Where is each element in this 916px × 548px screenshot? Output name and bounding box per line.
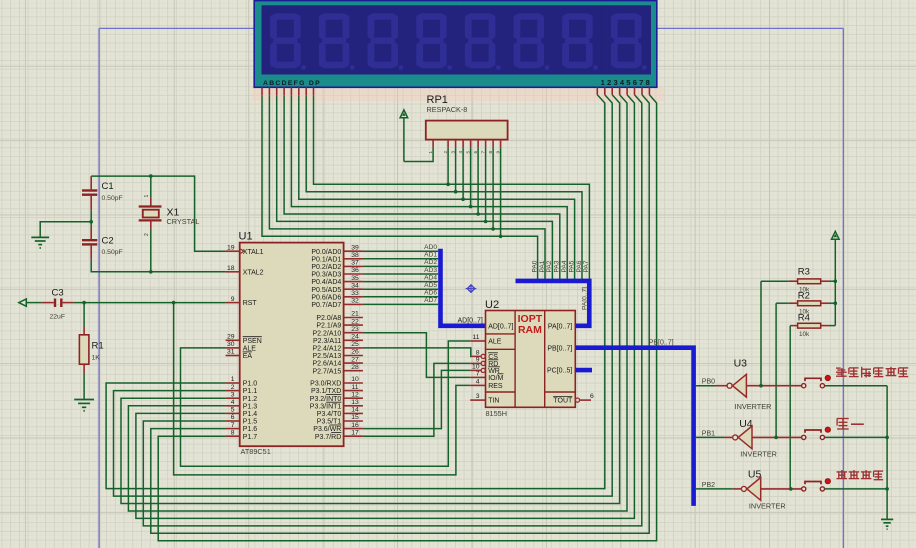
wire R2 to U4 node: [775, 303, 777, 437]
svg-text:CRYSTAL: CRYSTAL: [167, 217, 200, 226]
U5 input stub: [733, 488, 742, 490]
svg-text:INVERTER: INVERTER: [749, 502, 786, 511]
svg-text:1K: 1K: [92, 355, 101, 362]
svg-text:P3.5/T1: P3.5/T1: [317, 419, 342, 426]
wire RP1 pin 3 pull-up: [455, 148, 457, 192]
svg-text:PB[0..7]: PB[0..7]: [649, 340, 674, 347]
wire button1 to right rail: [825, 385, 888, 387]
U4 input stub: [724, 436, 733, 438]
wire P0.3 to AD bus: [363, 273, 438, 275]
inverter U4: [733, 418, 777, 459]
svg-text:C3: C3: [52, 288, 64, 299]
push button jiayi: [802, 427, 831, 440]
svg-text:ALE: ALE: [243, 346, 257, 353]
svg-text:25: 25: [351, 341, 359, 348]
junction RES spur: [172, 301, 176, 305]
wire C2 bottom to XTAL2 rail: [91, 260, 225, 272]
svg-text:1: 1: [144, 195, 150, 198]
label: adjust state switch (chinese): [836, 367, 908, 378]
svg-text:U2: U2: [485, 299, 499, 311]
svg-text:U1: U1: [239, 231, 253, 243]
svg-text:PA1: PA1: [539, 260, 546, 272]
svg-text:10: 10: [472, 363, 480, 370]
svg-text:12345678: 12345678: [601, 78, 652, 87]
wire P2.2 to IO/M: [363, 333, 470, 378]
wire segment E to PA4: [291, 95, 567, 279]
svg-text:P2.5/A13: P2.5/A13: [312, 353, 341, 360]
svg-text:PB[0..7]: PB[0..7]: [547, 345, 572, 352]
junction R4 pull-up: [789, 487, 793, 491]
svg-text:IO/M: IO/M: [488, 375, 503, 382]
ground symbol R1: [74, 400, 94, 411]
resistor R4: [790, 313, 835, 339]
peripheral U2 8155H: [485, 299, 575, 418]
ground symbol left: [31, 237, 49, 248]
wire button3 to right rail: [825, 488, 888, 490]
label: add one (chinese): [837, 419, 864, 430]
svg-text:22: 22: [351, 318, 359, 325]
svg-text:P0.6/AD6: P0.6/AD6: [311, 294, 341, 301]
svg-text:39: 39: [351, 244, 359, 251]
svg-text:P1.2: P1.2: [243, 396, 258, 403]
svg-text:22uF: 22uF: [50, 314, 66, 321]
display segment pins A-G,DP: [262, 87, 314, 95]
capacitor C1: [82, 176, 123, 210]
junction R1: [82, 301, 86, 305]
svg-text:PA[0..7]: PA[0..7]: [548, 323, 572, 330]
svg-text:P2.7/A15: P2.7/A15: [312, 368, 341, 375]
svg-text:14: 14: [351, 407, 359, 414]
pink highlight band under display: [252, 87, 664, 101]
svg-text:2: 2: [144, 233, 150, 236]
svg-text:32: 32: [351, 298, 359, 305]
svg-text:P3.1/TXD: P3.1/TXD: [311, 388, 341, 395]
svg-text:7: 7: [476, 370, 480, 377]
svg-text:RST: RST: [243, 300, 258, 307]
svg-text:24: 24: [351, 334, 359, 341]
wire RST net: [73, 302, 225, 304]
wire RP1 pin 5 pull-up: [470, 148, 472, 207]
wire P1.1 to digit 2: [114, 95, 613, 496]
svg-text:P1.7: P1.7: [243, 434, 258, 441]
svg-text:13: 13: [351, 399, 359, 406]
wire P3.6 to WR: [363, 370, 470, 428]
U1 XTAL1 clock arrow: [241, 249, 244, 253]
wire P1.0 to digit 1: [106, 95, 605, 489]
svg-text:2: 2: [231, 384, 235, 391]
svg-text:PA2: PA2: [546, 260, 553, 272]
svg-text:P0.2/AD2: P0.2/AD2: [311, 264, 341, 271]
svg-text:P2.3/A11: P2.3/A11: [313, 338, 341, 345]
svg-text:19: 19: [227, 244, 235, 251]
svg-text:AD2: AD2: [424, 259, 437, 266]
power symbol right: [832, 231, 840, 325]
wire R3 to U3 node: [760, 281, 762, 386]
resistor R3: [761, 267, 835, 294]
wire segment C to PA2: [277, 95, 553, 279]
wire P1.5 to digit 6: [143, 95, 642, 526]
junction R3 power: [834, 279, 838, 283]
svg-text:AD0: AD0: [424, 244, 437, 251]
svg-text:RAM: RAM: [518, 324, 542, 336]
svg-text:3: 3: [476, 393, 480, 400]
svg-text:ALE: ALE: [488, 339, 502, 346]
svg-text:3: 3: [231, 391, 235, 398]
wire PB2 from bus: [696, 488, 733, 490]
svg-text:R4: R4: [798, 313, 810, 324]
svg-text:EA: EA: [243, 353, 253, 360]
wire segment F to PA5: [299, 95, 575, 279]
bus PB[0..7]: [575, 348, 693, 506]
svg-text:23: 23: [351, 326, 359, 333]
svg-text:C2: C2: [102, 236, 114, 247]
junction right rail U4: [885, 436, 889, 440]
svg-text:11: 11: [351, 384, 358, 391]
svg-text:0.50pF: 0.50pF: [102, 195, 123, 202]
svg-text:XTAL2: XTAL2: [243, 269, 264, 276]
wire right rail to ground: [886, 386, 888, 519]
svg-text:PSEN: PSEN: [243, 338, 262, 345]
svg-text:R3: R3: [798, 267, 810, 278]
bus AD[0..7]: [441, 249, 486, 326]
svg-text:16: 16: [351, 422, 359, 429]
junction X1 bottom: [149, 270, 153, 274]
wire P0.4 to AD bus: [363, 281, 438, 283]
svg-text:R1: R1: [92, 341, 104, 352]
svg-text:AD5: AD5: [424, 282, 437, 289]
U2 left pins: [470, 323, 513, 404]
svg-text:P1.1: P1.1: [243, 388, 258, 395]
svg-text:15: 15: [351, 414, 359, 421]
resistor R2: [776, 291, 835, 316]
svg-text:P2.0/A8: P2.0/A8: [316, 315, 341, 322]
svg-text:18: 18: [227, 265, 235, 272]
origin marker: [466, 285, 477, 292]
svg-text:29: 29: [227, 334, 235, 341]
svg-text:U3: U3: [734, 358, 748, 370]
resistor R1: [79, 303, 103, 399]
svg-text:P0.7/AD7: P0.7/AD7: [311, 302, 341, 309]
svg-text:INVERTER: INVERTER: [735, 402, 772, 411]
wire RP1 pin 6 pull-up: [477, 148, 479, 214]
svg-text:9: 9: [476, 356, 480, 363]
wire RP1 pin 4 pull-up: [462, 148, 464, 200]
net labels AD0-AD7: [424, 244, 437, 304]
junction R2 pull-up: [774, 436, 778, 440]
svg-text:P1.3: P1.3: [243, 403, 258, 410]
wire segment DP to PA7: [314, 95, 590, 279]
svg-text:PA7: PA7: [583, 260, 590, 272]
svg-text:P1.5: P1.5: [243, 419, 258, 426]
svg-text:4: 4: [476, 378, 480, 385]
svg-text:P2.6/A14: P2.6/A14: [312, 361, 341, 368]
svg-text:RP1: RP1: [427, 94, 448, 106]
svg-text:37: 37: [351, 260, 359, 267]
svg-text:P0.0/AD0: P0.0/AD0: [311, 249, 341, 256]
svg-text:P1.4: P1.4: [243, 411, 258, 418]
wire P1.6 to digit 7: [151, 95, 649, 534]
wire RP1 pin 8 pull-up: [492, 148, 494, 229]
svg-text:8155H: 8155H: [486, 409, 508, 418]
svg-text:11: 11: [472, 334, 479, 341]
wire RP1 pin 2 pull-up: [447, 148, 449, 185]
svg-text:28: 28: [351, 364, 359, 371]
wire P0.5 to AD bus: [363, 288, 438, 290]
wire RP1 pin1 to power: [404, 148, 433, 162]
svg-text:P3.3/INT1: P3.3/INT1: [310, 403, 342, 410]
svg-text:ABCDEFG DP: ABCDEFG DP: [263, 80, 321, 87]
wire segment A to PA0: [262, 95, 538, 279]
U1 right pin names: [310, 249, 342, 441]
wire segment D to PA3: [284, 95, 560, 279]
wire P0.7 to AD bus: [363, 303, 438, 305]
svg-text:P2.1/A9: P2.1/A9: [316, 323, 341, 330]
wire RP1 pin 9 pull-up: [500, 148, 502, 237]
svg-text:TOUT: TOUT: [553, 398, 573, 405]
wire P1.7 to digit 8: [158, 95, 656, 541]
U1 left pin stubs and numbers: [226, 244, 240, 436]
svg-text:PA4: PA4: [561, 260, 568, 272]
wire C1 to C2: [90, 210, 92, 228]
U3 output wire to button: [746, 385, 801, 387]
label: display switch (chinese): [837, 470, 884, 480]
svg-text:XTAL1: XTAL1: [243, 249, 264, 256]
wire button2 to right rail: [825, 436, 888, 438]
svg-text:P1.6: P1.6: [243, 426, 258, 433]
svg-text:P1.0: P1.0: [243, 381, 258, 388]
svg-text:9: 9: [231, 296, 235, 303]
wire P2.4 to CS: [363, 348, 471, 357]
svg-text:AD[0..7]: AD[0..7]: [488, 323, 513, 330]
svg-text:P3.0/RXD: P3.0/RXD: [310, 381, 341, 388]
svg-text:P3.4/T0: P3.4/T0: [317, 411, 342, 418]
svg-text:6: 6: [231, 414, 235, 421]
svg-text:8: 8: [476, 349, 480, 356]
junction ground tap: [89, 220, 93, 224]
sheet border: [99, 28, 843, 548]
ground symbol right: [881, 519, 893, 529]
svg-text:4: 4: [231, 399, 235, 406]
crystal X1: [139, 176, 200, 272]
inverter U3: [727, 358, 771, 412]
wire segment B to PA1: [269, 95, 545, 279]
svg-text:RESPACK-8: RESPACK-8: [427, 105, 468, 114]
U2 right pins: [547, 323, 594, 404]
wire top rail XTAL1 net: [91, 176, 225, 251]
svg-text:AD4: AD4: [424, 274, 437, 281]
svg-text:AD[0..7]: AD[0..7]: [458, 318, 483, 325]
svg-text:PA6: PA6: [576, 260, 583, 272]
wire RST to 8155 RES: [174, 303, 471, 475]
svg-text:12: 12: [351, 391, 359, 398]
svg-text:INVERTER: INVERTER: [740, 450, 777, 459]
svg-text:5: 5: [231, 407, 235, 414]
wire PB0 from bus: [696, 385, 716, 387]
svg-text:38: 38: [351, 252, 359, 259]
svg-text:P3.6/WR: P3.6/WR: [313, 426, 341, 433]
capacitor C2: [82, 228, 123, 260]
wire P1.2 to digit 3: [121, 95, 620, 504]
svg-text:10k: 10k: [799, 331, 810, 338]
svg-text:10: 10: [351, 376, 359, 383]
wire P1.4 to digit 5: [136, 95, 635, 519]
svg-text:P0.3/AD3: P0.3/AD3: [311, 272, 341, 279]
U4 output wire to button: [752, 436, 802, 438]
U1 left pin names: [243, 249, 264, 441]
U1 right pin stubs and numbers: [344, 244, 363, 436]
push button xianshi: [802, 479, 831, 492]
svg-text:33: 33: [351, 290, 359, 297]
svg-text:AD3: AD3: [424, 267, 437, 274]
svg-text:31: 31: [227, 349, 235, 356]
push button tiaozheng: [802, 375, 831, 388]
capacitor C3: [26, 288, 73, 321]
wire P0.6 to AD bus: [363, 296, 438, 298]
7-segment display module LED1: [254, 1, 657, 88]
junction X1 top: [149, 174, 153, 178]
svg-text:PB1: PB1: [702, 430, 715, 437]
wire PB1 from bus: [696, 436, 724, 438]
svg-text:PA0: PA0: [531, 260, 538, 272]
wire ALE U1 to U2: [181, 341, 471, 466]
svg-text:P2.4/A12: P2.4/A12: [312, 346, 341, 353]
bus PC[0..5]: [575, 368, 592, 373]
svg-text:0.50pF: 0.50pF: [102, 249, 123, 256]
junction R3 pull-up: [759, 384, 763, 388]
svg-text:8: 8: [231, 429, 235, 436]
microcontroller U1 AT89C51: [239, 231, 344, 456]
svg-text:21: 21: [351, 311, 359, 318]
power symbol at RP1 pin 1: [400, 110, 408, 162]
svg-text:30: 30: [227, 341, 235, 348]
net labels PA0-PA7: [531, 260, 590, 272]
junction right rail U5: [885, 487, 889, 491]
svg-text:36: 36: [351, 267, 359, 274]
svg-text:PC[0..5]: PC[0..5]: [547, 368, 572, 375]
wire RP1 pin 7 pull-up: [485, 148, 487, 222]
svg-text:R2: R2: [798, 291, 810, 302]
power arrow left: [19, 299, 27, 306]
svg-text:PA3: PA3: [554, 260, 561, 272]
svg-text:26: 26: [351, 349, 359, 356]
svg-text:P3.7/RD: P3.7/RD: [315, 434, 341, 441]
svg-text:PA5: PA5: [568, 260, 575, 272]
svg-text:P0.4/AD4: P0.4/AD4: [311, 279, 341, 286]
svg-text:35: 35: [351, 275, 359, 282]
svg-text:7: 7: [231, 422, 235, 429]
svg-text:17: 17: [351, 429, 359, 436]
svg-text:AD1: AD1: [424, 252, 437, 259]
junction R2 power: [834, 301, 838, 305]
svg-text:AT89C51: AT89C51: [241, 447, 271, 456]
U5 output wire to button: [761, 488, 802, 490]
wire P1.3 to digit 4: [128, 95, 627, 511]
svg-text:1: 1: [231, 376, 235, 383]
wire P3.7 to RD: [363, 363, 470, 436]
svg-text:PA[0..7]: PA[0..7]: [582, 287, 589, 310]
svg-text:P3.2/INT0: P3.2/INT0: [310, 396, 342, 403]
svg-text:PB2: PB2: [702, 482, 715, 489]
bus PA[0..7]: [516, 281, 590, 326]
svg-text:AD6: AD6: [424, 290, 437, 297]
svg-text:PB0: PB0: [702, 379, 715, 386]
wire ground spur: [40, 222, 91, 237]
svg-text:6: 6: [590, 393, 594, 400]
display digit pins 1-8: [597, 87, 649, 94]
wire segment G to PA6: [306, 95, 582, 279]
svg-text:P0.5/AD5: P0.5/AD5: [311, 287, 341, 294]
svg-text:C1: C1: [102, 181, 114, 192]
svg-text:P0.1/AD1: P0.1/AD1: [311, 256, 341, 263]
svg-text:34: 34: [351, 282, 359, 289]
resistor pack RP1 RESPACK-8: [426, 94, 508, 154]
svg-text:TIN: TIN: [488, 398, 499, 405]
inverter U5: [741, 469, 785, 511]
wire P0.0 to AD bus: [363, 250, 438, 252]
wire R4 to U5 node: [789, 326, 791, 489]
wire P0.2 to AD bus: [363, 265, 438, 267]
svg-text:AD7: AD7: [424, 297, 437, 304]
wire P0.1 to AD bus: [363, 258, 438, 260]
svg-text:27: 27: [351, 356, 359, 363]
U3 input stub: [716, 385, 727, 387]
svg-text:RES: RES: [488, 383, 503, 390]
svg-text:P2.2/A10: P2.2/A10: [312, 330, 341, 337]
